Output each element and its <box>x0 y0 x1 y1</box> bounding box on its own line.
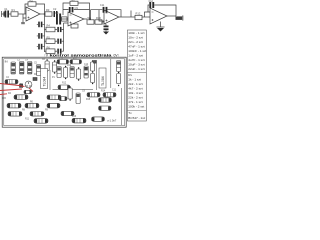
svg-text:TL084: TL084 <box>43 77 47 87</box>
capacitor C14 <box>57 49 61 54</box>
resistor R6 <box>46 49 55 54</box>
capacitor C104 <box>37 65 41 76</box>
resistor R102 <box>14 95 28 100</box>
svg-text:C14: C14 <box>84 64 89 66</box>
input jack J1 <box>2 11 6 17</box>
ground <box>157 27 165 32</box>
node B <box>89 18 91 20</box>
op-amp U1 <box>26 7 40 21</box>
capacitor C101 <box>11 62 15 74</box>
node labels and designators <box>4 0 153 49</box>
wire <box>91 10 103 20</box>
capacitor C11 <box>103 7 108 13</box>
svg-text:R21: R21 <box>73 58 78 60</box>
resistor R103 <box>47 95 61 100</box>
resistor R8 <box>70 1 78 5</box>
wire red lead A <box>0 84 25 87</box>
wire <box>142 16 150 18</box>
capacitor C118 <box>61 111 74 115</box>
wire <box>18 13 26 15</box>
wire <box>62 41 64 51</box>
svg-text:C9: C9 <box>75 6 79 10</box>
wire red lead B <box>0 89 22 91</box>
wire <box>55 50 57 52</box>
resistor R108 <box>30 112 44 117</box>
svg-text:R9: R9 <box>88 16 92 20</box>
wire <box>96 60 98 90</box>
capacitor C4 <box>37 33 45 39</box>
wire <box>130 11 132 18</box>
capacitor C6 <box>57 27 61 32</box>
svg-text:Tx: Tx <box>128 111 132 115</box>
resistor R116 <box>99 98 112 102</box>
resistor R106 <box>47 103 60 108</box>
capacitor C115 <box>117 72 121 86</box>
svg-text:C1: C1 <box>4 7 8 11</box>
svg-text:R4: R4 <box>47 24 51 28</box>
wire <box>62 23 64 30</box>
op-amp U102 TL084 <box>41 69 48 89</box>
parts list box <box>127 30 146 121</box>
svg-text:10n - 2 szt: 10n - 2 szt <box>128 35 143 39</box>
resistor R104 <box>7 103 21 108</box>
op-amp U101 TL084 <box>99 68 106 88</box>
resistor R10 <box>95 20 102 24</box>
svg-text:47k - 1 szt: 47k - 1 szt <box>128 100 142 104</box>
wire <box>45 50 47 52</box>
svg-text:100k - 2 szt: 100k - 2 szt <box>128 105 144 109</box>
resistor R109 <box>34 119 48 124</box>
svg-text:R12: R12 <box>136 12 141 16</box>
svg-text:R6: R6 <box>47 45 51 49</box>
op-amp U2 <box>68 12 84 26</box>
resistor R2 <box>28 2 36 6</box>
ground <box>103 32 109 35</box>
wire <box>99 10 104 21</box>
capacitor C111 <box>84 66 88 78</box>
capacitor C117 <box>76 93 80 104</box>
resistor R4 <box>46 27 55 32</box>
node +V supply label <box>44 53 49 57</box>
svg-text:R16: R16 <box>72 116 77 118</box>
resistor R11 <box>135 15 142 19</box>
wire red lead D <box>0 93 7 96</box>
svg-text:Rx: Rx <box>128 73 132 77</box>
svg-text:1k - 1 szt: 1k - 1 szt <box>128 78 141 82</box>
svg-text:R5: R5 <box>47 35 51 39</box>
capacitor C120 <box>33 78 37 81</box>
svg-text:R15: R15 <box>86 99 91 101</box>
svg-text:IN: IN <box>5 60 8 64</box>
svg-text:R12: R12 <box>62 83 67 85</box>
wire <box>102 21 104 22</box>
svg-text:R2: R2 <box>30 0 34 3</box>
node 0V supply label <box>114 53 120 57</box>
svg-text:R1: R1 <box>12 8 16 12</box>
wire <box>167 15 176 17</box>
capacitor C12 <box>149 2 154 8</box>
wire <box>49 70 51 90</box>
parts list text <box>128 31 146 120</box>
wire <box>44 14 46 52</box>
wire <box>78 3 90 19</box>
capacitor C108 <box>64 66 68 79</box>
resistor R118 <box>72 118 86 123</box>
svg-text:22n - 2 szt: 22n - 2 szt <box>128 40 143 44</box>
capacitor C114 <box>117 61 121 72</box>
wire <box>64 22 69 24</box>
wire <box>63 3 70 15</box>
capacitor C113 <box>91 74 95 85</box>
capacitor C121 <box>94 61 97 64</box>
capacitor C109 <box>70 67 74 78</box>
capacitor C106 <box>53 60 57 73</box>
capacitor C103 <box>28 62 32 75</box>
wire <box>154 5 176 16</box>
capacitor C116 <box>68 86 72 100</box>
wire <box>45 29 47 31</box>
wire <box>36 4 45 14</box>
wire red lead C <box>29 88 33 92</box>
wire <box>23 14 26 22</box>
PCB title <box>50 53 112 57</box>
svg-text:C8: C8 <box>55 11 59 15</box>
svg-text:0V: 0V <box>3 96 7 100</box>
wire <box>40 13 45 15</box>
svg-text:R19: R19 <box>67 65 72 67</box>
svg-text:47nF - 1 szt: 47nF - 1 szt <box>128 44 144 48</box>
svg-text:BC547 - 1sz: BC547 - 1sz <box>128 116 145 120</box>
op-amp U4 <box>150 8 167 24</box>
node A <box>44 13 46 15</box>
wire <box>62 30 64 42</box>
PCB board outline <box>2 57 126 127</box>
svg-text:TL084: TL084 <box>101 76 105 86</box>
resistor R1 <box>11 12 18 16</box>
svg-text:100nF - 1 szt: 100nF - 1 szt <box>128 49 146 53</box>
svg-text:1uF - 2 szt: 1uF - 2 szt <box>128 53 143 57</box>
svg-text:C11: C11 <box>100 4 105 7</box>
resistor R110 <box>57 60 69 64</box>
wire <box>119 16 125 18</box>
resistor R9 <box>87 20 94 24</box>
wire <box>125 16 135 18</box>
capacitor C5 <box>37 44 45 50</box>
capacitor C105 <box>45 59 49 72</box>
resistor R112 <box>58 85 70 89</box>
svg-text:10uF - 3 szt: 10uF - 3 szt <box>128 62 144 66</box>
svg-text:22k - 2 szt: 22k - 2 szt <box>128 96 142 100</box>
resistor R114 <box>87 93 100 97</box>
wire <box>25 4 28 14</box>
wire <box>148 5 149 12</box>
capacitor C1 <box>5 11 9 18</box>
svg-text:R14: R14 <box>101 91 106 93</box>
capacitor C7 <box>57 39 61 44</box>
transistor Q1 <box>25 81 32 88</box>
svg-text:0V↑: 0V↑ <box>114 53 120 57</box>
capacitor C119 <box>20 84 23 87</box>
svg-text:C12: C12 <box>59 58 64 60</box>
svg-text:4u7F - 1 szt: 4u7F - 1 szt <box>128 58 144 62</box>
resistor R113 <box>59 97 67 101</box>
svg-text:C2: C2 <box>53 7 57 11</box>
wire <box>63 9 90 11</box>
capacitor C2 <box>54 11 58 17</box>
svg-text:10k - 4 szt: 10k - 4 szt <box>128 91 142 95</box>
wire <box>9 13 11 15</box>
wire <box>45 40 47 42</box>
svg-text:2k2 - 1 szt: 2k2 - 1 szt <box>128 82 142 86</box>
resistor R115 <box>103 93 116 97</box>
resistor R111 <box>70 60 82 64</box>
resistor R7 <box>71 24 78 28</box>
capacitor C13 <box>21 22 25 24</box>
output jack J2 <box>176 16 183 21</box>
svg-text:100n - 1 szt: 100n - 1 szt <box>128 31 144 35</box>
wire <box>160 22 162 28</box>
resistor R117 <box>99 106 112 110</box>
capacitor C3 <box>37 22 45 28</box>
resistor R3 <box>45 12 52 16</box>
capacitor C110 <box>77 67 81 80</box>
wire <box>61 18 68 20</box>
svg-text:22uF - 1 szt: 22uF - 1 szt <box>128 67 144 71</box>
capacitor C102 <box>20 62 24 75</box>
resistor R101 <box>5 80 18 84</box>
resistor R5 <box>46 39 55 44</box>
resistor R107 <box>8 112 22 117</box>
component designators on board <box>6 58 117 121</box>
capacitor C107 <box>57 67 61 78</box>
resistor R105 <box>25 103 39 108</box>
svg-text:R3: R3 <box>46 8 50 12</box>
resistor R123 <box>24 90 32 93</box>
svg-text:u-1.0x7: u-1.0x7 <box>107 118 117 122</box>
capacitor C8 <box>56 14 61 25</box>
capacitor C112 <box>91 60 95 72</box>
op-amp U3 <box>104 10 119 24</box>
wire <box>55 40 57 42</box>
svg-text:C12: C12 <box>149 0 154 3</box>
wire <box>53 89 94 91</box>
wire <box>110 59 112 89</box>
wire <box>84 18 87 20</box>
resistor R124 <box>92 117 105 121</box>
wire <box>145 12 151 17</box>
svg-text:4k7 - 2 szt: 4k7 - 2 szt <box>128 87 142 91</box>
capacitor C9 <box>69 7 74 12</box>
wire <box>55 29 57 31</box>
capacitor C10 <box>102 22 109 32</box>
wire <box>108 10 122 17</box>
resistor R14 <box>62 17 68 21</box>
svg-text:R10: R10 <box>96 16 101 20</box>
wire <box>121 88 123 125</box>
svg-text:kontrol samoprostirala: kontrol samoprostirala <box>50 53 112 57</box>
